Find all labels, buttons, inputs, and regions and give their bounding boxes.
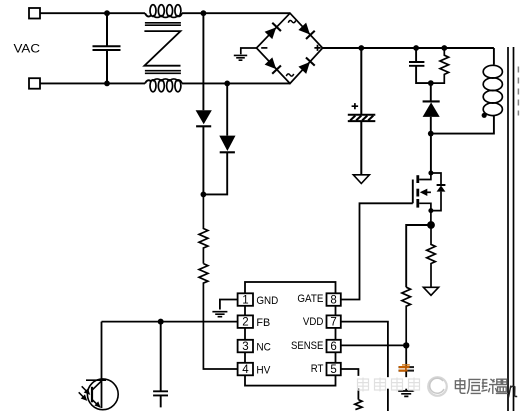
IC pin 5 box <box>327 363 341 376</box>
svg-text:8: 8 <box>330 295 336 307</box>
svg-text:VAC: VAC <box>14 41 41 55</box>
wire gate <box>341 203 413 299</box>
resistor sense upper <box>427 225 436 287</box>
junction node rail bulk cap <box>358 45 364 51</box>
bridge diode bottom-right <box>298 57 315 74</box>
svg-text:6: 6 <box>330 341 336 353</box>
bridge plus mark <box>314 45 320 51</box>
optocoupler collector wire <box>101 322 103 408</box>
svg-text:4: 4 <box>242 364 249 376</box>
capacitor bulk electrolytic <box>348 48 376 175</box>
IC U1 body <box>245 282 336 386</box>
IC pin 7 box <box>327 315 341 328</box>
watermark logo ring <box>428 377 447 396</box>
terminal VAC bottom <box>29 78 40 89</box>
junction node D1-D2 <box>201 192 207 198</box>
IC pin number labels <box>242 295 337 377</box>
svg-text:HV: HV <box>256 365 271 377</box>
return arrow below sense resistor <box>423 287 438 295</box>
bridge diode bottom-left <box>264 57 281 74</box>
inductor CM-choke bottom winding <box>145 80 151 83</box>
IC pin 6 box <box>327 340 341 353</box>
resistor snubber <box>431 48 449 83</box>
CM-choke core lines bottom <box>145 71 181 74</box>
CM-choke core lines top <box>145 23 181 25</box>
wire source to sense divider <box>406 225 431 287</box>
svg-text:NC: NC <box>256 342 271 354</box>
resistor HV lower <box>199 264 237 369</box>
IC pin 3 box <box>238 340 253 353</box>
watermark text meng <box>496 379 508 393</box>
bridge rectifier outline <box>257 13 323 83</box>
MOSFET body diode <box>431 173 441 211</box>
bridge AC mark bottom <box>286 74 293 76</box>
bridge diode top-left <box>264 23 281 40</box>
watermark text lian <box>481 379 497 394</box>
transformer primary winding <box>493 48 495 65</box>
terminal VAC top <box>29 8 40 19</box>
wire SENSE <box>341 344 406 346</box>
optocoupler transistor <box>87 379 118 410</box>
junction node rail snubber cap <box>413 45 419 51</box>
wire RT <box>341 369 359 400</box>
svg-text:FB: FB <box>256 317 270 329</box>
svg-text:RT: RT <box>311 363 324 375</box>
junction node top choke out <box>201 10 207 16</box>
resistor RT <box>355 400 362 410</box>
IC pin 4 box <box>238 363 253 376</box>
IC pin 8 box <box>327 293 341 306</box>
watermark faint glyph 3 <box>392 378 403 392</box>
watermark white band <box>355 377 452 388</box>
capacitor FB <box>153 322 168 408</box>
watermark text yuan <box>467 379 481 393</box>
watermark faint glyph 1 <box>358 378 420 392</box>
transformer phase dot <box>482 113 487 118</box>
wire VDD <box>341 322 388 411</box>
earth ground below sense cap <box>398 391 414 396</box>
junction node top-left cap <box>104 10 110 16</box>
capacitor sense filter (orange) <box>405 345 407 366</box>
watermark faint glyph 2 <box>375 378 386 392</box>
watermark text dian <box>455 378 507 394</box>
IC pin name labels <box>256 293 323 377</box>
diode D2 <box>226 83 228 135</box>
capacitor CX across line <box>93 13 121 83</box>
resistor HV upper <box>199 194 208 263</box>
svg-text:VDD: VDD <box>303 316 324 328</box>
transformer secondary stubs <box>517 67 519 116</box>
wire top AC line <box>40 12 290 14</box>
return arrow below bulk cap <box>353 175 369 184</box>
watermark faint glyph 4 <box>409 378 420 392</box>
junction node FB cap <box>158 319 164 325</box>
junction node source sense <box>427 221 435 229</box>
inductor CM-choke top winding <box>145 13 151 16</box>
bridge minus mark <box>261 47 267 49</box>
wire pin1 to earth ground <box>220 300 238 310</box>
svg-text:5: 5 <box>330 364 336 376</box>
earth ground at pin1 <box>212 312 227 317</box>
CM-choke Z mark <box>144 31 180 66</box>
bridge AC mark top <box>288 21 295 23</box>
junction node rail snubber res <box>441 45 447 51</box>
clamp diode <box>430 83 432 101</box>
watermark glyph n <box>508 386 517 398</box>
wire bridge to earth ground <box>241 48 257 54</box>
svg-text:3: 3 <box>242 341 248 353</box>
wire DC top rail <box>323 47 494 49</box>
earth ground near bridge <box>234 55 247 60</box>
resistor sense lower <box>402 287 411 345</box>
diode D1 <box>202 13 204 110</box>
junction node sense pin <box>403 342 409 348</box>
MOSFET Q1 <box>412 180 414 204</box>
svg-text:GATE: GATE <box>297 293 323 305</box>
junction node drain body-diode <box>428 171 433 176</box>
junction node source body-diode <box>428 208 433 213</box>
bulk cap hatch plate <box>350 116 373 121</box>
wire MOSFET drain <box>430 134 432 173</box>
capacitor snubber <box>409 48 431 83</box>
IC pin 1 box <box>238 293 253 306</box>
svg-text:2: 2 <box>242 317 248 329</box>
wire FB <box>102 321 238 323</box>
junction node bottom cap <box>104 81 110 87</box>
bridge diode top-right <box>298 22 315 39</box>
optocoupler light arrows <box>82 386 88 392</box>
svg-text:GND: GND <box>256 295 278 307</box>
svg-text:1: 1 <box>242 295 248 307</box>
IC pin 2 box <box>238 315 253 328</box>
bulk cap plus label <box>352 103 359 109</box>
svg-text:SENSE: SENSE <box>291 340 323 352</box>
transformer core lines <box>508 47 514 411</box>
wire bottom AC line <box>40 82 290 84</box>
junction node clamp-transformer-drain <box>428 131 434 137</box>
svg-text:7: 7 <box>330 317 336 329</box>
junction node bottom choke out <box>224 81 230 87</box>
junction node snubber bottom <box>428 80 434 86</box>
